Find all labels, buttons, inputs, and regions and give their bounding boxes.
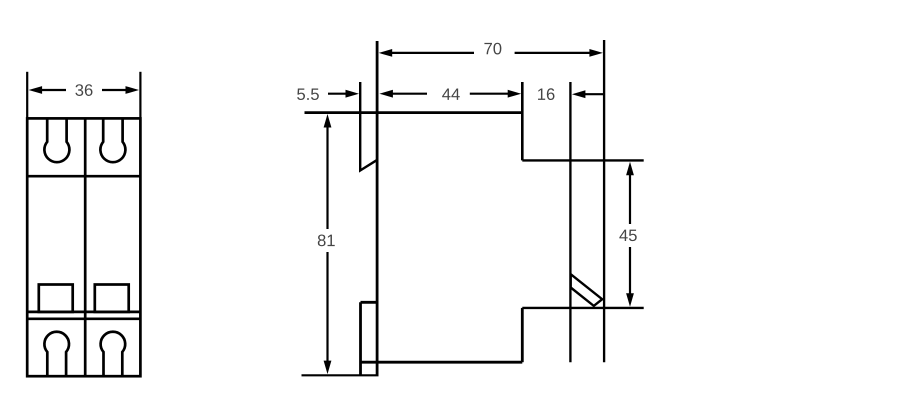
dim 36 left shaft <box>41 89 66 91</box>
dim 81 upper shaft <box>326 126 328 229</box>
dim 16 shaft <box>585 93 603 95</box>
bottom terminal keyhole pole 2 <box>101 332 126 376</box>
front view top section line <box>27 175 140 178</box>
front view body outline <box>27 118 140 376</box>
foot left edge <box>359 302 362 375</box>
dim 45 top arrow <box>626 162 634 176</box>
dim 70 left arrow <box>379 49 393 57</box>
rail groove vertical <box>569 82 571 362</box>
foot bottom with 81 extension <box>302 374 379 376</box>
dim 5.5 shaft <box>328 93 347 95</box>
bottom terminal keyhole pole 1 <box>44 332 69 376</box>
dim 36 right arrow <box>126 86 140 94</box>
dim 81 lower shaft <box>326 252 328 362</box>
front view lower line A <box>27 311 140 314</box>
toggle handle pole 2 <box>95 285 129 312</box>
dim 44 right arrow <box>508 90 522 98</box>
side view top edge with 81 extension <box>305 111 523 114</box>
top terminal keyhole pole 1 <box>44 118 69 162</box>
dim 81 bottom arrow <box>324 361 332 375</box>
din clip line with flick <box>360 82 376 171</box>
dim 70 label <box>484 43 501 55</box>
dim 70 right arrow <box>589 49 603 57</box>
step edge upper <box>521 82 524 160</box>
dim 5.5 arrow <box>346 90 360 98</box>
dim 45 bottom arrow <box>626 293 634 307</box>
dim 70 right shaft <box>515 52 591 54</box>
dim 36 left arrow <box>29 86 42 94</box>
dim 36 label <box>75 84 92 96</box>
toggle handle pole 1 <box>39 285 73 312</box>
back edge vertical <box>603 40 605 362</box>
dim 44 left arrow <box>379 90 393 98</box>
rear top surface with 45 extension <box>522 159 643 161</box>
dim 45 lower shaft <box>629 247 631 294</box>
front view extension line right <box>139 72 141 119</box>
front view extension line left <box>26 72 28 119</box>
dim 44 label <box>442 88 460 99</box>
dim 44 right shaft <box>470 93 509 95</box>
side view left edge <box>376 41 379 375</box>
top terminal keyhole pole 2 <box>100 118 125 162</box>
dim 16 label <box>538 88 554 100</box>
front view lower line B <box>27 317 140 320</box>
dim 45 label <box>619 230 636 242</box>
dim 36 right shaft <box>102 89 127 91</box>
side view bottom edge <box>361 361 523 364</box>
dim 44 left shaft <box>391 93 427 95</box>
rear bottom surface with 45 extension <box>522 307 643 309</box>
front view pole divider <box>84 118 87 376</box>
step edge lower <box>521 308 524 362</box>
dim 45 upper shaft <box>629 174 631 224</box>
dim 16 arrow <box>572 90 586 98</box>
foot top edge <box>361 301 378 304</box>
dim 5.5 label <box>297 88 319 100</box>
rail latch hatch band <box>571 274 603 306</box>
dim 70 left shaft <box>390 52 474 54</box>
dim 81 top arrow <box>324 114 332 128</box>
dim 81 label <box>318 235 335 247</box>
